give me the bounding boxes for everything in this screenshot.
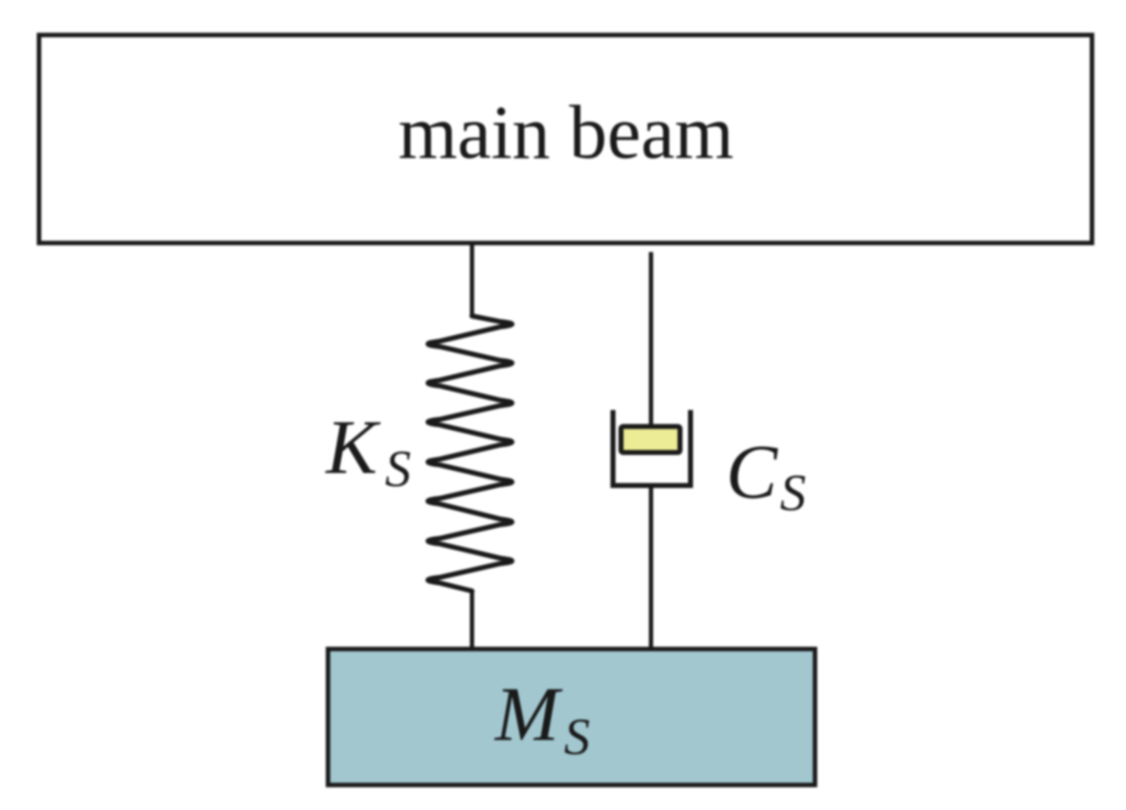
- label C_S: [726, 429, 806, 522]
- svg-text:S: S: [385, 441, 411, 498]
- wire: damper upper rod: [649, 252, 653, 432]
- damper C_S piston: [621, 427, 680, 453]
- svg-text:main beam: main beam: [398, 91, 734, 175]
- wire: damper lower rod: [649, 488, 653, 650]
- damper C_S cylinder (cup): [613, 410, 691, 486]
- label M_S: [494, 671, 590, 766]
- wire: spring upper rod: [470, 245, 474, 316]
- mass M_S box: [328, 649, 815, 785]
- svg-text:K: K: [325, 404, 381, 490]
- main beam box: [39, 35, 1092, 243]
- spring K_S coils: [428, 316, 512, 591]
- svg-text:M: M: [494, 671, 563, 757]
- svg-text:S: S: [564, 709, 590, 766]
- label K_S: [325, 404, 411, 498]
- wire: spring lower rod: [470, 591, 474, 650]
- svg-text:C: C: [726, 429, 779, 515]
- svg-text:S: S: [780, 465, 806, 522]
